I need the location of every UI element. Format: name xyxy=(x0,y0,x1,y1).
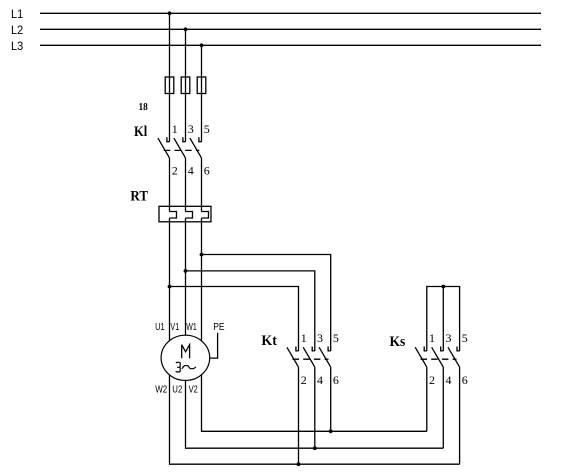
wire Ks pole 1 to bottom bus 1 xyxy=(426,367,428,431)
svg-text:2: 2 xyxy=(429,373,435,387)
junction Kt pole 2 / bus 2 xyxy=(313,446,317,450)
Kt mechanical linkage (dashed) xyxy=(293,358,329,360)
Ks mechanical linkage (dashed) xyxy=(421,358,457,360)
svg-text:5: 5 xyxy=(462,331,468,345)
wire L1 bus xyxy=(40,12,541,14)
motor label 3 xyxy=(176,362,181,372)
wire RT pole 1 to motor terminal xyxy=(169,218,171,341)
wire U2 to bottom bus 2 xyxy=(186,380,444,448)
contactor K1 pole 3 moving blade xyxy=(190,138,202,158)
contactor K1 pole 2 moving blade xyxy=(174,138,186,158)
wire L2 drop to K1 pole 2 xyxy=(185,29,187,141)
contactor K1 pole 1 fixed contact (cup) xyxy=(167,137,170,141)
wire Ks pole 3 to bottom bus 3 xyxy=(459,367,461,464)
motor letter M xyxy=(182,345,190,359)
fuse F1 xyxy=(165,77,174,94)
junction Ks star point xyxy=(441,285,445,289)
contactor Kt pole 3 fixed contact (cup) xyxy=(328,347,331,351)
contactor Ks pole 3 moving blade xyxy=(448,347,460,367)
svg-text:W2: W2 xyxy=(155,385,167,396)
wire V2 to bottom bus 1 xyxy=(202,375,427,431)
contactor Ks pole 1 fixed contact (cup) xyxy=(424,347,427,351)
RT heater element pole 3 xyxy=(202,212,209,219)
svg-text:Kt: Kt xyxy=(261,333,277,349)
svg-text:L2: L2 xyxy=(11,23,23,37)
svg-text:4: 4 xyxy=(317,373,323,387)
svg-text:5: 5 xyxy=(204,122,210,136)
junction Kt pole 1 / bus 3 xyxy=(297,462,301,466)
wire L2 bus xyxy=(40,28,541,30)
fuse F3 xyxy=(197,77,206,94)
contactor Ks pole 3 fixed contact (cup) xyxy=(457,347,460,351)
K1 mechanical linkage (dashed) xyxy=(164,149,200,151)
contactor K1 pole 1 moving blade xyxy=(158,138,170,158)
svg-text:4: 4 xyxy=(188,164,194,178)
junction L2 tap xyxy=(184,27,188,31)
RT heater element pole 1 xyxy=(170,212,177,219)
svg-text:W1: W1 xyxy=(186,322,197,333)
RT heater element pole 2 xyxy=(186,212,193,219)
svg-text:L3: L3 xyxy=(11,39,23,53)
svg-text:6: 6 xyxy=(333,373,339,387)
contactor Kt pole 1 moving blade xyxy=(287,347,299,367)
wire RT pole 3 to motor terminal xyxy=(201,218,203,341)
svg-text:6: 6 xyxy=(204,164,210,178)
wire RT pole 2 to motor terminal xyxy=(185,218,187,335)
svg-text:3: 3 xyxy=(188,122,194,136)
wire K1 pole 1 to RT xyxy=(169,158,171,212)
svg-text:Ks: Ks xyxy=(390,334,406,350)
svg-text:RT: RT xyxy=(130,189,148,205)
wire Ks star bridge xyxy=(427,287,460,352)
motor label tilde xyxy=(182,366,196,369)
svg-text:3: 3 xyxy=(317,331,323,345)
contactor Ks pole 1 moving blade xyxy=(415,347,427,367)
wire Kt pole 1 to bottom bus 3 xyxy=(298,367,300,464)
svg-text:6: 6 xyxy=(462,373,468,387)
wire U1 tap to Kt pole 1 xyxy=(170,287,299,352)
junction L3 tap xyxy=(200,43,204,47)
svg-text:L1: L1 xyxy=(11,7,23,21)
contactor Kt pole 2 fixed contact (cup) xyxy=(312,347,315,351)
wire PE lead xyxy=(210,333,218,358)
contactor Ks pole 2 moving blade xyxy=(432,347,444,367)
contactor Kt pole 2 moving blade xyxy=(303,347,315,367)
wire Kt pole 3 to bottom bus 1 xyxy=(330,367,332,431)
junction node W1 tap xyxy=(200,253,204,257)
svg-text:PE: PE xyxy=(213,322,225,333)
wire Kt pole 2 to bottom bus 2 xyxy=(314,367,316,448)
contactor Ks pole 2 fixed contact (cup) xyxy=(441,347,444,351)
wire W2 to bottom bus 3 xyxy=(170,375,460,464)
svg-text:V1: V1 xyxy=(170,322,179,333)
wire L1 drop to K1 pole 1 xyxy=(169,13,171,141)
wire Ks pole 2 riser xyxy=(442,287,444,352)
wire Ks pole 2 to bottom bus 2 xyxy=(442,367,444,448)
svg-text:1: 1 xyxy=(172,122,178,136)
wire W1 tap to Kt pole 3 xyxy=(202,255,331,352)
svg-text:V2: V2 xyxy=(189,385,199,396)
contactor Kt pole 3 moving blade xyxy=(319,347,331,367)
contactor Kt pole 1 fixed contact (cup) xyxy=(296,347,299,351)
junction L1 tap xyxy=(168,11,172,15)
motor M1 circle xyxy=(161,335,210,380)
svg-text:4: 4 xyxy=(446,373,452,387)
svg-text:1: 1 xyxy=(301,331,307,345)
contactor K1 pole 3 fixed contact (cup) xyxy=(199,137,202,141)
wire K1 pole 3 to RT xyxy=(201,158,203,212)
svg-text:2: 2 xyxy=(172,164,178,178)
wire V1 tap to Kt pole 2 xyxy=(186,271,315,351)
wire L3 bus xyxy=(40,44,541,46)
wire K1 pole 2 to RT xyxy=(185,158,187,212)
svg-text:5: 5 xyxy=(333,331,339,345)
thermal relay RT box xyxy=(159,206,211,222)
junction Kt pole 3 / bus 1 xyxy=(329,429,333,433)
svg-text:3: 3 xyxy=(446,331,452,345)
svg-text:1: 1 xyxy=(429,331,435,345)
fuse F2 xyxy=(181,77,190,94)
svg-text:Kl: Kl xyxy=(134,124,147,140)
svg-text:2: 2 xyxy=(301,373,307,387)
svg-text:U2: U2 xyxy=(172,385,182,396)
svg-text:18: 18 xyxy=(139,101,149,113)
junction node U1 tap xyxy=(168,285,172,289)
svg-text:U1: U1 xyxy=(155,322,165,333)
contactor K1 pole 2 fixed contact (cup) xyxy=(183,137,186,141)
wire L3 drop to K1 pole 3 xyxy=(201,45,203,141)
junction node V1 tap xyxy=(184,269,188,273)
